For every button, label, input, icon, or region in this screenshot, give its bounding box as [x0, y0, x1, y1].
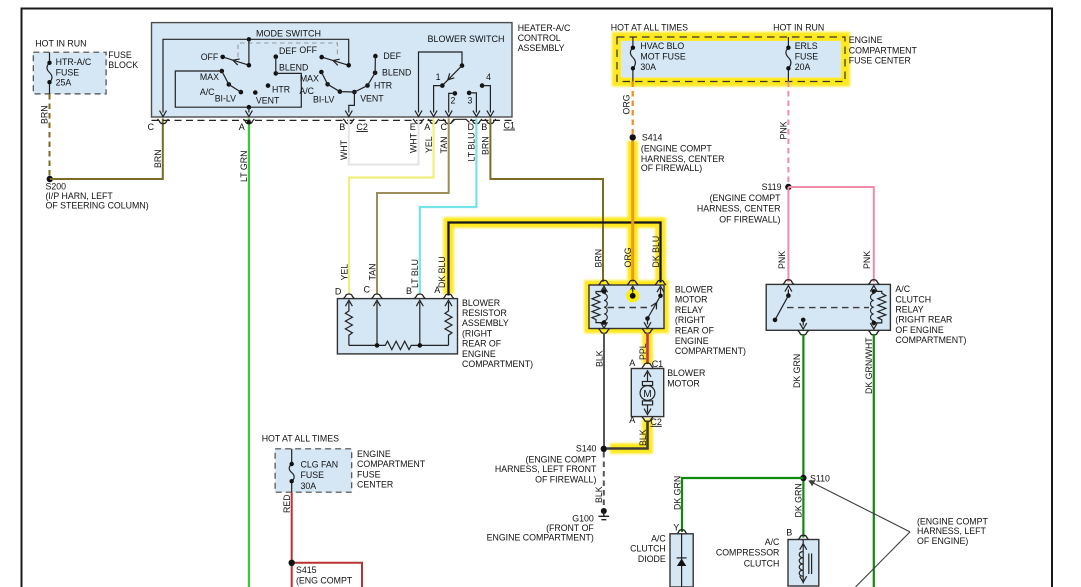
svg-text:BLK: BLK [638, 429, 648, 446]
svg-text:(RIGHT: (RIGHT [462, 328, 493, 338]
engine compartment fuse center box [611, 22, 918, 81]
svg-text:C2: C2 [356, 122, 368, 132]
svg-text:ERLS: ERLS [795, 41, 818, 51]
svg-text:B: B [406, 286, 412, 296]
wire MAX/BLEND to terminal A rect [175, 71, 301, 107]
wire DK GRN S110 to diode [672, 476, 803, 532]
svg-text:OFF: OFF [299, 45, 317, 55]
CLG FAN fuse box [262, 434, 426, 492]
svg-text:B: B [786, 528, 792, 538]
wire ORG dashed fuse to S414 [622, 82, 633, 135]
wire C to bus [376, 302, 378, 345]
svg-text:DK GRN: DK GRN [792, 354, 802, 388]
svg-text:ENGINE: ENGINE [675, 336, 709, 346]
highlight: blower motor relay box [589, 285, 664, 329]
svg-text:LT BLU: LT BLU [467, 132, 477, 161]
svg-text:1: 1 [436, 72, 441, 82]
svg-text:FUSE: FUSE [56, 67, 80, 77]
wire BRN terminal C to S200 [50, 119, 163, 180]
svg-text:BLOWER: BLOWER [667, 368, 705, 378]
svg-text:G100: G100 [572, 514, 594, 524]
fuse HVAC BLO MOT 30A [630, 37, 685, 82]
wire DK GRN/WHT A/C relay down [864, 334, 874, 587]
wire pole2 to terminal B [349, 92, 355, 113]
svg-text:LT GRN: LT GRN [239, 151, 249, 182]
svg-text:BLOWER: BLOWER [462, 298, 500, 308]
A/C relay switch contact [787, 290, 789, 296]
blower switch wiper [442, 66, 462, 86]
blower motor relay [589, 280, 746, 356]
highlight: PPL wire relay to motor [642, 330, 653, 364]
svg-text:ASSEMBLY: ASSEMBLY [462, 318, 509, 328]
node S119 [697, 182, 792, 225]
svg-text:BLK: BLK [594, 486, 604, 503]
svg-text:S414: S414 [642, 132, 663, 142]
svg-text:COMPRESSOR: COMPRESSOR [716, 548, 780, 558]
svg-text:A: A [629, 415, 635, 425]
svg-text:WHT: WHT [408, 132, 418, 153]
svg-text:VENT: VENT [256, 96, 280, 106]
svg-text:HOT AT ALL TIMES: HOT AT ALL TIMES [611, 22, 688, 32]
A/C relay dashed link [787, 307, 869, 309]
resistor internals [345, 300, 452, 349]
svg-text:S119: S119 [762, 182, 782, 192]
svg-text:4: 4 [486, 72, 491, 82]
svg-text:FUSE: FUSE [357, 469, 381, 479]
mode switch [160, 29, 412, 117]
wire BLK dashed S140 to G100 [594, 452, 604, 509]
svg-text:HTR: HTR [374, 81, 392, 91]
svg-text:FUSE: FUSE [108, 50, 132, 60]
terminal C [443, 119, 454, 124]
wire PNK dashed fuse to S119 [779, 82, 789, 184]
svg-text:CLUTCH: CLUTCH [744, 558, 780, 568]
node S110 [800, 473, 830, 483]
svg-text:FUSE: FUSE [795, 51, 819, 61]
svg-text:A/C: A/C [651, 533, 666, 543]
contact MAX A/C to BI-LV pole1 [220, 69, 225, 74]
svg-text:DK BLU: DK BLU [437, 256, 447, 288]
terminal B / connector C2 [343, 119, 354, 124]
terminal cups D C B A [343, 294, 354, 299]
blower resistor assembly [335, 285, 533, 370]
highlight: BLK wire motor to S140 [610, 419, 648, 449]
terminal C [158, 119, 169, 124]
svg-text:COMPARTMENT: COMPARTMENT [357, 459, 426, 469]
svg-text:CLUTCH: CLUTCH [895, 294, 931, 304]
svg-text:BRN: BRN [593, 249, 603, 268]
svg-text:OF ENGINE: OF ENGINE [895, 325, 944, 335]
svg-text:HARNESS, LEFT: HARNESS, LEFT [917, 526, 987, 536]
svg-text:30A: 30A [301, 481, 317, 491]
wire BRN blower switch B to relay [481, 119, 604, 283]
svg-text:30A: 30A [640, 62, 656, 72]
svg-text:2: 2 [451, 95, 456, 105]
svg-text:A/C: A/C [895, 284, 910, 294]
svg-text:OF STEERING COLUMN): OF STEERING COLUMN) [46, 200, 149, 210]
A/C clutch relay [766, 280, 966, 345]
terminal D [471, 119, 482, 124]
svg-text:(ENGINE COMPT: (ENGINE COMPT [710, 193, 781, 203]
svg-text:ENGINE: ENGINE [357, 449, 391, 459]
svg-text:C: C [441, 122, 448, 132]
contact 3 [467, 91, 472, 96]
wire BRN dashed fuse to S200 [40, 94, 50, 177]
switch wiper 1 [223, 39, 249, 65]
wire BLK relay to S140 [594, 333, 604, 449]
svg-text:HOT IN RUN: HOT IN RUN [773, 23, 824, 33]
A/C clutch diode [630, 523, 693, 587]
wire mode switch common from C [163, 39, 349, 112]
svg-text:REAR OF: REAR OF [675, 326, 715, 336]
svg-text:(RIGHT REAR: (RIGHT REAR [895, 315, 952, 325]
node S415 [289, 560, 353, 586]
svg-text:FUSE: FUSE [301, 470, 325, 480]
svg-text:B: B [481, 122, 487, 132]
svg-text:(FRONT OF: (FRONT OF [546, 523, 594, 533]
wire DK GRN A/C relay to S110 and compressor [792, 334, 804, 538]
svg-text:(ENGINE COMPT: (ENGINE COMPT [641, 144, 712, 154]
A/C compressor clutch [716, 528, 819, 586]
svg-text:MOTOR: MOTOR [675, 295, 708, 305]
wire ORG S414 to relay (highlighted) [623, 141, 633, 283]
svg-text:CENTER: CENTER [357, 480, 393, 490]
svg-text:HTR-A/C: HTR-A/C [56, 57, 92, 67]
svg-text:20A: 20A [795, 62, 811, 72]
svg-text:HARNESS, LEFT FRONT: HARNESS, LEFT FRONT [495, 464, 597, 474]
terminal A [428, 119, 439, 124]
svg-text:ASSEMBLY: ASSEMBLY [518, 43, 565, 53]
svg-text:(ENGINE COMPT: (ENGINE COMPT [917, 516, 988, 526]
svg-text:ENGINE: ENGINE [462, 349, 496, 359]
svg-text:BRN: BRN [481, 136, 491, 155]
svg-text:DIODE: DIODE [638, 554, 666, 564]
svg-text:FUSE CENTER: FUSE CENTER [849, 56, 911, 66]
wire LT BLU blower switch D to resistor B [410, 119, 477, 294]
svg-text:BLEND: BLEND [279, 63, 308, 73]
svg-text:B: B [339, 122, 345, 132]
fuse block (I/P) dashed box [33, 39, 138, 94]
svg-text:YEL: YEL [339, 264, 349, 281]
contact 2 [453, 91, 458, 96]
svg-text:E: E [410, 122, 416, 132]
svg-text:OF FIREWALL): OF FIREWALL) [641, 163, 702, 173]
svg-text:RELAY: RELAY [895, 305, 923, 315]
svg-text:A: A [239, 122, 245, 132]
svg-text:HVAC BLO: HVAC BLO [640, 41, 684, 51]
svg-text:ORG: ORG [622, 94, 632, 114]
svg-text:MAX: MAX [200, 72, 219, 82]
relay terminal 30 stub [626, 289, 639, 302]
bus with horizontal resistor element [349, 341, 449, 349]
svg-text:COMPARTMENT: COMPARTMENT [849, 45, 918, 55]
svg-text:YEL: YEL [424, 136, 434, 153]
svg-text:C: C [364, 285, 371, 295]
svg-text:C: C [148, 122, 155, 132]
svg-text:COMPARTMENT): COMPARTMENT) [675, 346, 746, 356]
contact DEF-BLEND pole1 [274, 54, 279, 59]
svg-text:(ENGINE COMPT: (ENGINE COMPT [526, 454, 597, 464]
svg-text:S140: S140 [576, 443, 597, 453]
svg-text:OFF: OFF [201, 52, 219, 62]
svg-text:A: A [434, 285, 440, 295]
svg-text:A/C: A/C [200, 87, 215, 97]
svg-text:(ENG COMPT: (ENG COMPT [296, 575, 353, 585]
svg-text:ENGINE COMPARTMENT): ENGINE COMPARTMENT) [487, 533, 594, 543]
svg-text:A: A [424, 122, 430, 132]
highlight: DK BLU wire resistor A to relay [449, 223, 661, 295]
svg-text:BRN: BRN [153, 149, 163, 168]
svg-text:A/C: A/C [765, 537, 780, 547]
relay coil [603, 288, 605, 292]
wire LT GRN terminal A down [239, 119, 249, 587]
svg-text:VENT: VENT [360, 93, 384, 103]
svg-text:ENGINE: ENGINE [849, 35, 883, 45]
resistor element A [445, 302, 452, 345]
svg-text:BLOWER SWITCH: BLOWER SWITCH [428, 34, 505, 44]
svg-text:D: D [468, 122, 475, 132]
contact 1 [434, 86, 443, 113]
svg-text:REAR OF: REAR OF [462, 339, 502, 349]
svg-text:MOTOR: MOTOR [667, 378, 700, 388]
svg-text:LT BLU: LT BLU [410, 259, 420, 288]
svg-text:DK BLU: DK BLU [651, 236, 661, 268]
svg-text:DK GRN: DK GRN [672, 476, 682, 510]
svg-text:OF ENGINE): OF ENGINE) [917, 536, 968, 546]
svg-text:ORG: ORG [623, 247, 633, 267]
svg-text:DK GRN: DK GRN [794, 483, 804, 517]
svg-text:MODE SWITCH: MODE SWITCH [256, 29, 321, 39]
node S200 [46, 176, 149, 211]
heater-A/C control assembly box [152, 23, 571, 117]
connector row C2/C1 dashed line [148, 119, 516, 132]
svg-text:BRN: BRN [40, 105, 50, 124]
svg-text:DEF: DEF [279, 46, 297, 56]
svg-text:D: D [335, 286, 342, 296]
svg-text:CLG FAN: CLG FAN [301, 460, 339, 470]
wire RED fuse to S415 [282, 492, 362, 587]
svg-text:CLUTCH: CLUTCH [630, 544, 666, 554]
svg-text:HOT AT ALL TIMES: HOT AT ALL TIMES [262, 434, 339, 444]
svg-text:BLK: BLK [594, 350, 604, 367]
svg-text:HOT IN RUN: HOT IN RUN [35, 39, 86, 49]
terminal E [413, 119, 424, 124]
svg-text:S415: S415 [296, 565, 317, 575]
svg-text:3: 3 [468, 95, 473, 105]
wire DK BLU resistor A to relay (highlighted) [437, 223, 661, 296]
svg-text:TAN: TAN [367, 264, 377, 281]
wire PPL relay to blower motor (highlighted) [638, 333, 648, 365]
svg-text:M: M [643, 389, 651, 400]
svg-text:RED: RED [282, 494, 292, 513]
svg-text:COMPARTMENT): COMPARTMENT) [462, 359, 533, 369]
svg-text:PNK: PNK [779, 121, 789, 139]
svg-text:WHT: WHT [339, 139, 349, 160]
fuse ERLS 20A [786, 37, 818, 82]
svg-text:RESISTOR: RESISTOR [462, 308, 507, 318]
svg-text:TAN: TAN [439, 137, 449, 154]
svg-text:A: A [629, 358, 635, 368]
svg-text:COMPARTMENT): COMPARTMENT) [895, 335, 966, 345]
svg-text:BI-LV: BI-LV [215, 94, 236, 104]
svg-text:PNK: PNK [777, 251, 787, 269]
terminal B / connector C1 [485, 119, 496, 124]
pointer lines to S110 and below [808, 480, 988, 587]
highlight: engine compartment fuse center box [617, 37, 845, 82]
svg-text:DK GRN/WHT: DK GRN/WHT [864, 337, 874, 394]
dashed selection box [238, 43, 337, 57]
svg-text:25A: 25A [56, 78, 72, 88]
fuse CLG FAN 30A [289, 449, 338, 492]
wire TAN blower switch C to resistor C [367, 119, 449, 294]
node S414 [630, 132, 725, 173]
wire BLK blower motor to S140 (highlighted) [607, 421, 648, 449]
A/C relay coil [873, 290, 875, 292]
relay switch contact [660, 288, 662, 296]
svg-text:PNK: PNK [862, 251, 872, 269]
wire WHT terminal B to E [339, 119, 419, 165]
svg-text:CONTROL: CONTROL [518, 33, 561, 43]
svg-text:PPL: PPL [638, 343, 648, 360]
svg-text:MAX: MAX [300, 73, 319, 83]
node S140 [495, 443, 607, 484]
blower switch [415, 34, 505, 117]
wire YEL blower switch A to resistor D [339, 119, 434, 294]
highlight: ORG wire S414 to relay [627, 141, 638, 281]
ground G100 [487, 508, 610, 543]
terminal A [243, 119, 254, 124]
svg-text:RELAY: RELAY [675, 305, 703, 315]
contact 4 [480, 83, 485, 88]
wire B to bus [419, 302, 421, 345]
wire PNK S119 to A/C clutch relay [777, 187, 874, 282]
svg-text:(RIGHT: (RIGHT [675, 315, 706, 325]
svg-text:OF FIREWALL): OF FIREWALL) [535, 474, 596, 484]
blower motor [629, 358, 705, 427]
svg-text:BLEND: BLEND [382, 68, 411, 78]
svg-text:S200: S200 [46, 182, 67, 192]
svg-text:C1: C1 [504, 121, 516, 131]
relay dashed link [608, 307, 652, 309]
svg-text:BLOCK: BLOCK [108, 60, 138, 70]
svg-text:DEF: DEF [383, 51, 401, 61]
switch wiper 2 [322, 57, 349, 65]
svg-text:OF FIREWALL): OF FIREWALL) [719, 214, 780, 224]
svg-text:BLOWER: BLOWER [675, 284, 713, 294]
svg-text:BI-LV: BI-LV [313, 95, 334, 105]
SECTION: highlight bands [0, 0, 1, 1]
svg-text:HARNESS, CENTER: HARNESS, CENTER [697, 204, 781, 214]
svg-text:HTR: HTR [272, 85, 290, 95]
resistor element D [345, 302, 352, 345]
contact HTR VENT pole1 [266, 83, 271, 88]
svg-text:HEATER-A/C: HEATER-A/C [518, 23, 571, 33]
contact arc pole2 [319, 70, 324, 75]
fuse HTR-A/C 25A [47, 52, 92, 94]
svg-text:MOT FUSE: MOT FUSE [640, 51, 685, 61]
